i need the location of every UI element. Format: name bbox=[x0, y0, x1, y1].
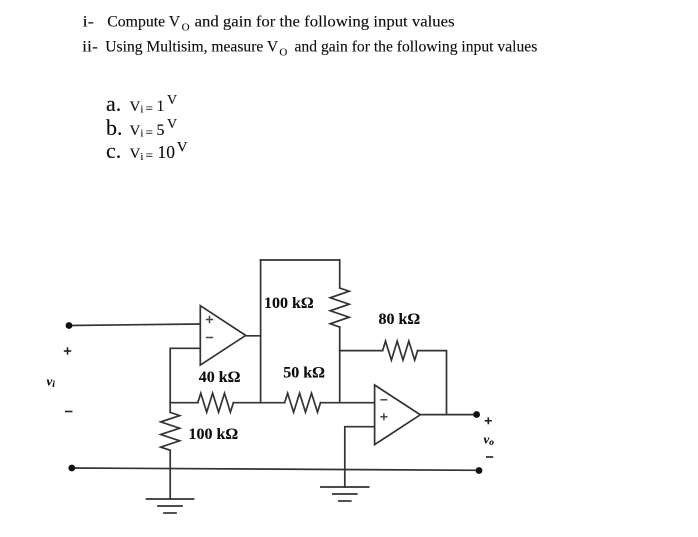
svg-text:and gain for the following inp: and gain for the following input values bbox=[295, 38, 538, 56]
svg-text:50 kΩ: 50 kΩ bbox=[283, 365, 325, 382]
svg-text:a.: a. bbox=[106, 91, 121, 116]
svg-text:c.: c. bbox=[106, 138, 121, 163]
svg-text:Vi=1V: Vi=1V bbox=[130, 93, 178, 116]
svg-text:100 kΩ: 100 kΩ bbox=[264, 295, 314, 312]
svg-text:b.: b. bbox=[106, 115, 123, 140]
svg-text:vo: vo bbox=[484, 432, 495, 449]
svg-text:vi: vi bbox=[47, 374, 56, 391]
svg-text:Compute V: Compute V bbox=[107, 13, 180, 31]
svg-text:Using Multisim, measure V: Using Multisim, measure V bbox=[105, 38, 278, 56]
svg-text:i-: i- bbox=[83, 13, 94, 31]
svg-text:ii-: ii- bbox=[82, 38, 98, 56]
svg-text:O: O bbox=[279, 47, 287, 59]
svg-text:100 kΩ: 100 kΩ bbox=[189, 426, 239, 443]
svg-text:40 kΩ: 40 kΩ bbox=[199, 369, 241, 386]
svg-text:O: O bbox=[182, 22, 190, 34]
svg-text:Vi=10V: Vi=10V bbox=[130, 140, 188, 163]
svg-text:80 kΩ: 80 kΩ bbox=[379, 311, 421, 328]
svg-text:Vi=5V: Vi=5V bbox=[130, 117, 178, 140]
svg-text:and gain for the following inp: and gain for the following input values bbox=[195, 13, 455, 31]
